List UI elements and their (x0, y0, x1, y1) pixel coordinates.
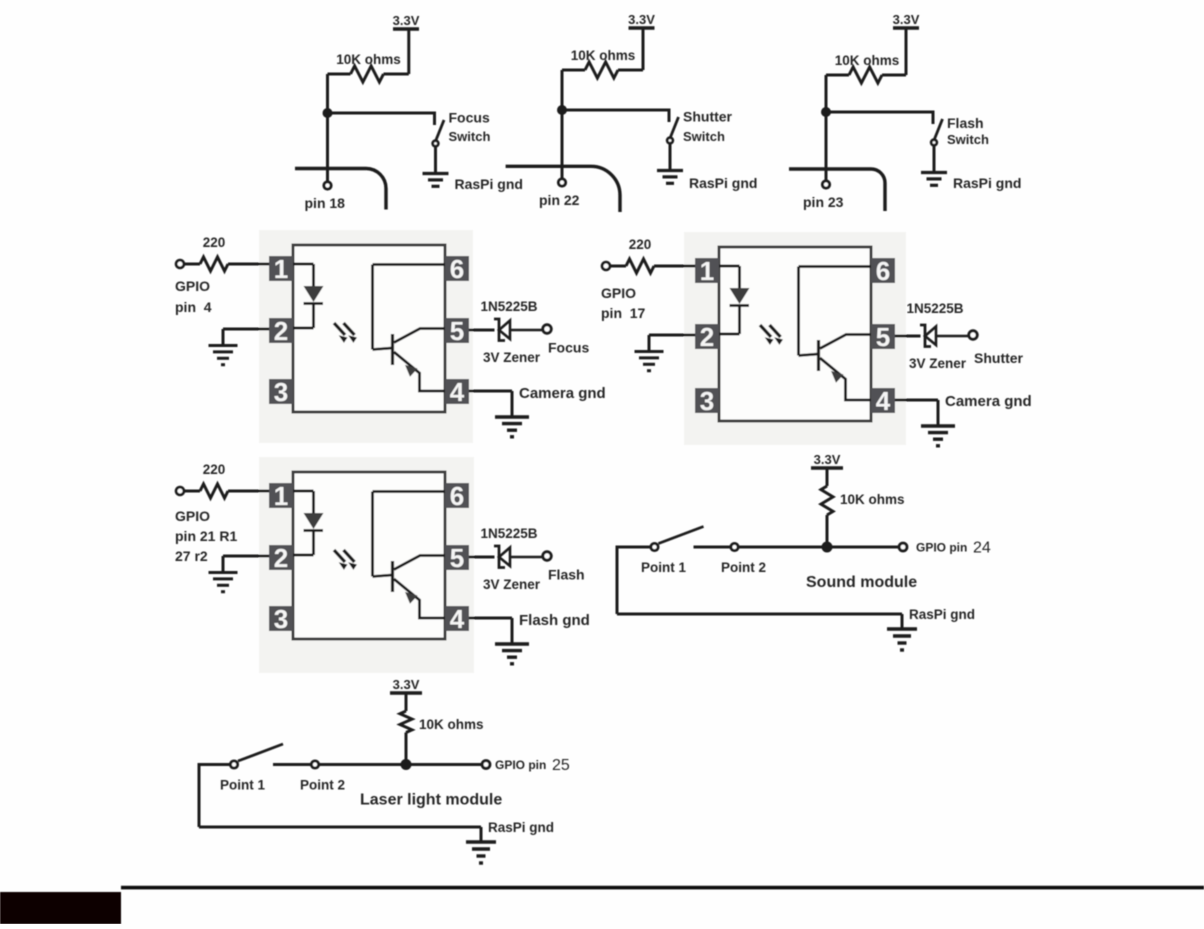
svg-text:3.3V: 3.3V (893, 12, 920, 27)
svg-text:10K ohms: 10K ohms (571, 48, 636, 63)
svg-text:4: 4 (450, 604, 465, 634)
svg-text:10K ohms: 10K ohms (419, 717, 484, 732)
svg-text:10K ohms: 10K ohms (840, 492, 905, 507)
svg-text:3.3V: 3.3V (393, 677, 420, 692)
svg-text:GPIO: GPIO (175, 278, 210, 294)
svg-text:3V Zener: 3V Zener (483, 350, 541, 365)
svg-text:2: 2 (700, 322, 714, 352)
svg-text:1N5225B: 1N5225B (481, 299, 538, 314)
svg-text:Point 2: Point 2 (300, 778, 345, 793)
svg-text:4: 4 (450, 377, 465, 407)
svg-text:pin 21 R1: pin 21 R1 (175, 528, 237, 544)
svg-text:4: 4 (876, 386, 891, 416)
svg-text:5: 5 (450, 316, 464, 346)
svg-text:GPIO: GPIO (175, 508, 210, 524)
svg-text:Flash gnd: Flash gnd (519, 612, 590, 629)
svg-text:RasPi gnd: RasPi gnd (909, 607, 975, 622)
svg-text:3.3V: 3.3V (814, 452, 841, 467)
svg-text:6: 6 (876, 256, 890, 286)
svg-text:1N5225B: 1N5225B (481, 526, 538, 541)
svg-text:RasPi gnd: RasPi gnd (488, 820, 554, 835)
svg-text:pin 18: pin 18 (305, 195, 346, 211)
svg-text:GPIO: GPIO (601, 285, 636, 301)
svg-text:3V Zener: 3V Zener (483, 577, 541, 592)
svg-text:RasPi gnd: RasPi gnd (953, 175, 1021, 191)
svg-text:3.3V: 3.3V (628, 12, 655, 27)
svg-text:Flash: Flash (548, 567, 585, 583)
svg-text:5: 5 (450, 543, 464, 573)
svg-text:1: 1 (700, 256, 714, 286)
svg-text:Shutter: Shutter (683, 109, 733, 125)
svg-text:1: 1 (274, 254, 288, 284)
svg-text:pin 23: pin 23 (803, 194, 844, 210)
svg-text:Laser light module: Laser light module (360, 792, 502, 809)
svg-text:Flash: Flash (947, 115, 984, 131)
svg-text:Switch: Switch (683, 129, 725, 144)
svg-text:1N5225B: 1N5225B (907, 301, 964, 316)
svg-text:5: 5 (876, 322, 890, 352)
svg-text:3: 3 (274, 377, 288, 407)
svg-text:Shutter: Shutter (974, 350, 1024, 366)
svg-text:3V Zener: 3V Zener (909, 356, 967, 371)
svg-text:Point 1: Point 1 (220, 778, 265, 793)
svg-text:10K ohms: 10K ohms (336, 52, 401, 67)
svg-text:Switch: Switch (449, 129, 491, 144)
svg-text:10K ohms: 10K ohms (835, 53, 900, 68)
svg-text:Point 1: Point 1 (641, 560, 686, 575)
svg-text:Focus: Focus (548, 340, 589, 356)
svg-text:220: 220 (203, 235, 226, 250)
svg-text:RasPi gnd: RasPi gnd (455, 176, 523, 192)
svg-text:25: 25 (552, 757, 570, 774)
svg-text:Point 2: Point 2 (721, 560, 766, 575)
svg-text:Switch: Switch (947, 132, 989, 147)
svg-text:220: 220 (203, 462, 226, 477)
svg-text:3.3V: 3.3V (393, 13, 420, 28)
svg-text:2: 2 (274, 543, 288, 573)
svg-text:6: 6 (450, 481, 464, 511)
svg-text:24: 24 (973, 540, 991, 557)
svg-text:Camera gnd: Camera gnd (945, 393, 1032, 410)
svg-text:pin 22: pin 22 (539, 192, 580, 208)
svg-text:2: 2 (274, 316, 288, 346)
svg-text:GPIO pin: GPIO pin (916, 541, 967, 555)
svg-text:3: 3 (700, 386, 714, 416)
svg-text:6: 6 (450, 254, 464, 284)
svg-text:Focus: Focus (449, 110, 490, 126)
svg-text:3: 3 (274, 604, 288, 634)
svg-text:pin 4: pin 4 (175, 299, 212, 315)
svg-text:1: 1 (274, 481, 288, 511)
svg-text:27 r2: 27 r2 (175, 548, 208, 564)
svg-text:220: 220 (629, 237, 652, 252)
svg-text:pin 17: pin 17 (601, 305, 646, 321)
svg-text:Camera gnd: Camera gnd (519, 385, 606, 402)
svg-text:GPIO pin: GPIO pin (495, 758, 546, 772)
svg-text:Sound module: Sound module (806, 574, 917, 591)
svg-text:RasPi gnd: RasPi gnd (689, 175, 757, 191)
